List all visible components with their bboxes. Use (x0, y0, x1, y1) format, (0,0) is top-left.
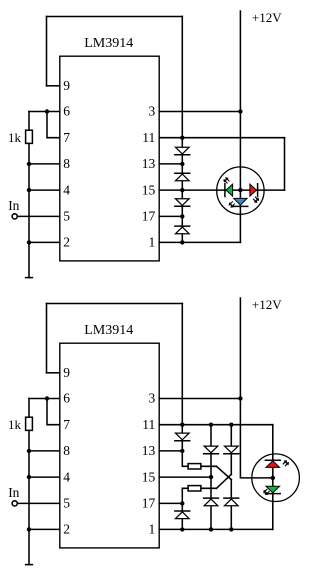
IC U1 LM3914 body (60, 56, 159, 261)
wire resistor top U1 (28, 112, 30, 131)
wire loop left U2 (46, 304, 48, 373)
wire left rail U1 (28, 143, 30, 277)
svg-text:In: In (8, 198, 19, 213)
wire pin6 U2 (29, 398, 60, 400)
svg-text:17: 17 (142, 209, 156, 224)
svg-text:13: 13 (142, 156, 156, 171)
wire left column pin17-pin1 (181, 503, 183, 529)
diode D7 (pin1-pin17) (175, 511, 190, 519)
wire left column pin11-pin13 (181, 425, 183, 451)
wire left rail U2 (28, 430, 30, 564)
junction pin11/chain (180, 136, 184, 140)
junction chain pin1 (180, 240, 184, 244)
diode D8 (column1 upper) (204, 446, 219, 454)
wire loop right down to pin11 node U1 (181, 17, 183, 138)
svg-text:6: 6 (63, 104, 70, 119)
junction pin1/bridge column1 (209, 527, 213, 531)
svg-text:15: 15 (142, 182, 156, 197)
wire pin8 U1 (29, 163, 60, 165)
wire loop right down to pin11 node U2 (181, 304, 183, 425)
LED D5 red anode-cathode (250, 184, 258, 197)
junction pin4 U1 (27, 188, 31, 192)
svg-text:LM3914: LM3914 (84, 36, 133, 51)
LED D12 green emission arrows (264, 489, 270, 495)
junction pin2 U2 (27, 527, 31, 531)
resistor 1k U2 (26, 417, 33, 430)
junction bicolor LED midpoint (271, 476, 275, 480)
wire +12V rail down through RGB LED to pin1 row (239, 11, 241, 242)
RGB LED D5 envelope (217, 167, 264, 214)
wire pin4 U2 (29, 476, 60, 478)
svg-text:1k: 1k (8, 130, 22, 145)
resistor R3 (188, 486, 201, 491)
junction pin3/rail U1 (238, 109, 242, 113)
svg-text:6: 6 (63, 391, 70, 406)
wire pin6-pin7 jog U1 (47, 112, 60, 138)
diode D3 (pin15-pin17) (175, 199, 190, 207)
wire pin9 U1 (47, 85, 60, 87)
svg-text:13: 13 (142, 443, 156, 458)
LED D5 blue anode-cathode (233, 198, 248, 206)
junction pin1/bridge column2 (229, 527, 233, 531)
svg-text:8: 8 (63, 443, 70, 458)
wire pin9 U2 (47, 372, 60, 374)
junction pin8 U1 (27, 162, 31, 166)
wire pin8 U2 (29, 450, 60, 452)
svg-text:4: 4 (63, 469, 70, 484)
LED D5 green anode-cathode (225, 184, 233, 197)
bicolor LED D12 envelope (252, 454, 300, 502)
wire pin5 from In U2 (18, 502, 60, 504)
diode D4 (pin17-pin1) (175, 226, 190, 234)
junction pin11/left diode (180, 423, 184, 427)
svg-text:9: 9 (63, 78, 70, 93)
wire +12V rail down to bicolor LED (240, 298, 272, 478)
junction pin2 U1 (27, 240, 31, 244)
junction pin8 U2 (27, 449, 31, 453)
wire pin13 (159, 163, 182, 165)
LED D5 green emission arrows (224, 178, 229, 184)
svg-text:1: 1 (149, 522, 156, 537)
svg-text:17: 17 (142, 496, 156, 511)
junction pin15/bridge column1 (209, 475, 213, 479)
wire pin13 to R2 (182, 451, 188, 466)
svg-text:5: 5 (63, 496, 70, 511)
wire pin15 row (159, 476, 211, 478)
junction pin4 U2 (27, 475, 31, 479)
wire loop top U1 (47, 16, 183, 18)
wire pin2 U2 (29, 528, 60, 530)
diode D1 (pin11-pin13) (175, 147, 190, 155)
ground U1 (26, 277, 33, 279)
junction pin1/left diode (180, 527, 184, 531)
wire crossover B (R3 to upper column2) (217, 474, 232, 488)
wire loop left U1 (46, 17, 48, 86)
svg-text:5: 5 (63, 209, 70, 224)
junction RGB LED common anode (238, 188, 242, 192)
svg-text:In: In (8, 485, 19, 500)
wire pin11 row (159, 137, 284, 139)
LED D12 red emission arrows (283, 461, 289, 466)
wire pin1 row (159, 241, 240, 243)
wire pin13 (159, 450, 182, 452)
svg-text:7: 7 (63, 417, 70, 432)
wire pin11 row (159, 424, 273, 426)
diode D2 (pin13-pin15) (175, 173, 190, 181)
svg-text:2: 2 (63, 235, 70, 250)
wire bridge column1 (210, 425, 212, 530)
wire pin4 U1 (29, 189, 60, 191)
wire pin2 U1 (29, 241, 60, 243)
svg-text:7: 7 (63, 130, 70, 145)
junction pin17/R3 (180, 501, 184, 505)
LED D12 green anode-cathode (265, 486, 280, 493)
wire pin15 row through LED (159, 189, 284, 191)
wire diode chain column (181, 138, 183, 243)
ground U2 (26, 564, 33, 566)
svg-text:8: 8 (63, 156, 70, 171)
node In terminal U2 (12, 501, 17, 506)
wire right vertical pin11 to red LED (284, 138, 286, 190)
junction pin11/bridge column1 (209, 423, 213, 427)
svg-text:11: 11 (142, 130, 155, 145)
diode D11 (column2 lower) (224, 498, 239, 506)
svg-text:1: 1 (149, 235, 156, 250)
junction chain pin13 (180, 162, 184, 166)
wire pin3 U2 (159, 398, 240, 400)
wire pin17 (159, 502, 182, 504)
wire pin17 (159, 215, 182, 217)
IC U2 LM3914 body (60, 343, 159, 548)
diode D6 (pin11-pin13) (175, 433, 190, 441)
wire R2 to crossover (201, 465, 217, 467)
junction pin3/rail U2 (238, 396, 242, 400)
wire pin6-pin7 jog U2 (47, 399, 60, 425)
wire bicolor LED column (272, 425, 274, 530)
LED D12 red anode-cathode (265, 460, 280, 467)
svg-text:2: 2 (63, 522, 70, 537)
resistor R2 (188, 464, 201, 469)
wire R3 to crossover (201, 487, 217, 489)
LED D5 blue emission arrows (229, 201, 234, 207)
junction pin6/pin7/R divider U1 (45, 109, 49, 113)
junction pin13/R2 (180, 449, 184, 453)
wire pin6 U1 (29, 111, 60, 113)
wire pin17 to R3 (182, 488, 188, 503)
svg-text:LM3914: LM3914 (84, 323, 133, 338)
wire pin3 U1 (159, 111, 240, 113)
wire pin5 from In U1 (18, 215, 60, 217)
svg-text:1k: 1k (8, 417, 22, 432)
LED D5 red emission arrows (253, 197, 258, 203)
svg-text:+12V: +12V (252, 10, 282, 25)
resistor 1k U1 (26, 130, 33, 143)
diode D9 (column1 lower) (204, 498, 219, 506)
svg-text:9: 9 (63, 365, 70, 380)
wire crossover A (R2 to lower column2) (217, 466, 232, 479)
svg-text:4: 4 (63, 182, 70, 197)
junction pin11/bridge column2 (229, 423, 233, 427)
wire loop top U2 (47, 303, 183, 305)
wire resistor top U2 (28, 399, 30, 418)
svg-text:3: 3 (149, 104, 156, 119)
svg-text:15: 15 (142, 469, 156, 484)
svg-text:+12V: +12V (252, 297, 282, 312)
junction chain pin17 (180, 214, 184, 218)
wire pin1 row (159, 528, 273, 530)
wire bridge column2 lower (230, 480, 232, 530)
junction chain pin15 (180, 188, 184, 192)
svg-text:11: 11 (142, 417, 155, 432)
diode D10 (column2 upper) (224, 446, 239, 454)
svg-text:3: 3 (149, 391, 156, 406)
junction pin6/pin7/R divider U2 (45, 396, 49, 400)
node In terminal U1 (12, 214, 17, 219)
wire bridge column2 upper (230, 425, 232, 475)
